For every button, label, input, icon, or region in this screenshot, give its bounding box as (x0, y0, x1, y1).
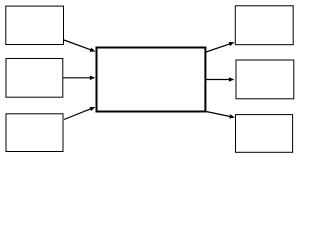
box A (top-left) (6, 6, 64, 44)
box D (top-right) (235, 6, 293, 45)
arrow from center to box E (206, 77, 235, 81)
arrow from center to box D (206, 42, 235, 52)
arrow from center to box F (206, 112, 235, 119)
arrow from box B to center (63, 76, 96, 80)
arrow from box C to center (64, 107, 95, 120)
box E (middle-right) (236, 60, 294, 99)
arrow from box A to center (64, 40, 96, 52)
center box (97, 48, 206, 112)
box F (bottom-right) (236, 115, 293, 153)
box B (middle-left) (6, 59, 63, 98)
box C (bottom-left) (6, 114, 63, 152)
